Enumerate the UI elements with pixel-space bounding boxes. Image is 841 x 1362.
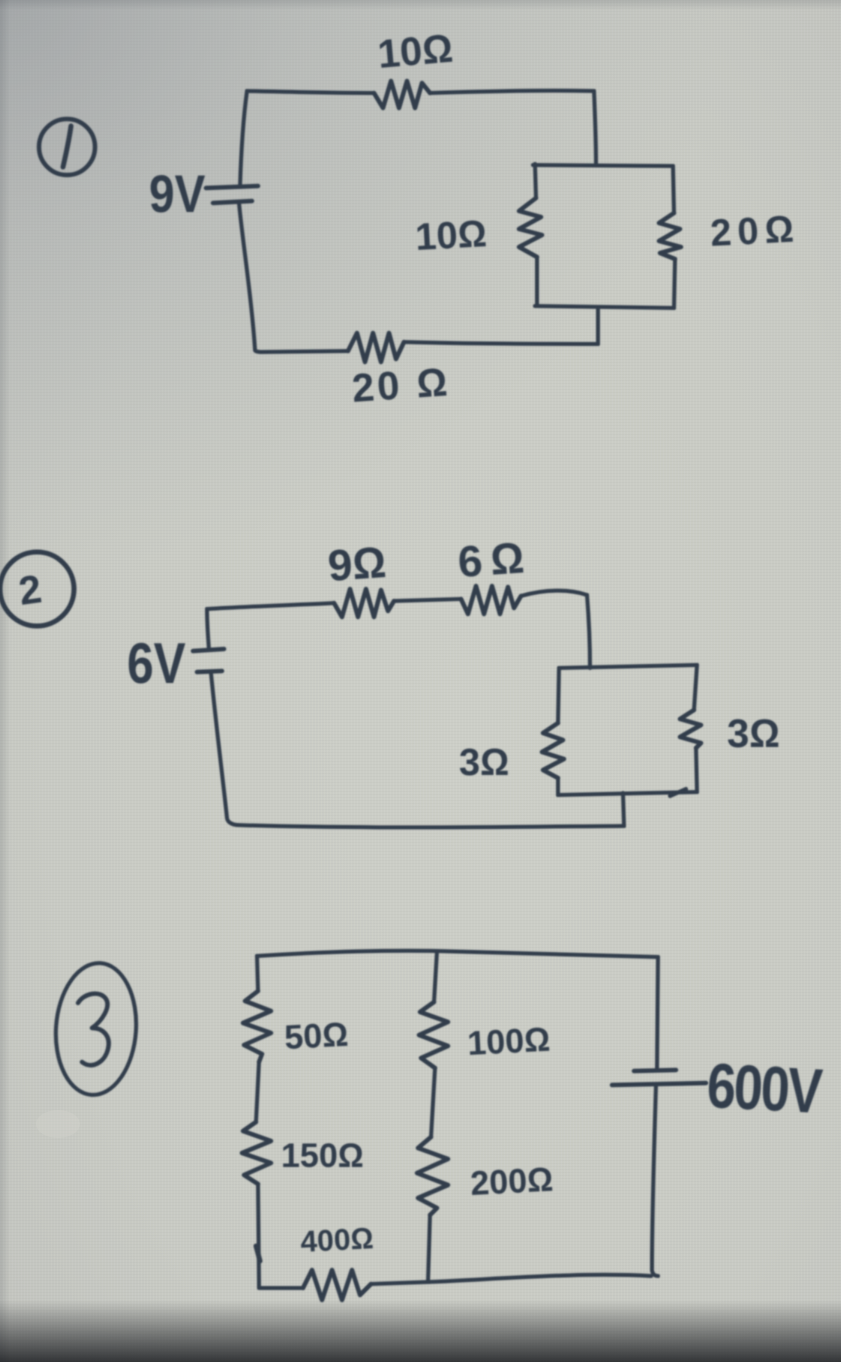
resistor 150ohm — [242, 1122, 271, 1184]
resistor 50ohm — [243, 991, 271, 1062]
digit 1 — [63, 126, 71, 167]
wire up to parallel box — [596, 308, 600, 344]
parallel box top — [533, 165, 673, 166]
wire 6ohm to right corner — [521, 591, 587, 596]
box right lower stub — [674, 259, 675, 308]
label circle 1 — [39, 119, 95, 175]
middle branch upper stub — [434, 951, 437, 1002]
label ellipse 3 — [51, 960, 140, 1097]
wire left vertical upper — [240, 91, 247, 187]
right branch lower — [652, 1085, 658, 1276]
right branch upper — [657, 957, 658, 1069]
top edge shadow — [0, 0, 841, 10]
top-left vignette — [0, 0, 720, 570]
wire left vertical upper — [207, 609, 209, 650]
svg-text:20 Ω: 20 Ω — [351, 360, 452, 411]
box2 top — [559, 665, 697, 668]
box left upper stub — [535, 164, 536, 198]
svg-text:50Ω: 50Ω — [283, 1016, 349, 1057]
left branch upper stub — [257, 956, 258, 991]
left edge shadow — [0, 0, 10, 1362]
resistor 20ohm bottom — [348, 333, 404, 362]
label circle 2 — [0, 552, 74, 626]
box left lower stub — [535, 257, 539, 305]
wire top-left to 9ohm — [207, 603, 334, 609]
resistor 20ohm vertical — [659, 213, 681, 259]
svg-text:9Ω: 9Ω — [326, 538, 388, 591]
resistor 200ohm — [417, 1137, 448, 1215]
box2 bottom-right tick — [670, 789, 686, 796]
resistor 3ohm left — [542, 723, 564, 778]
resistor 10ohm top — [374, 81, 430, 108]
digit 3 — [78, 994, 109, 1066]
wire right down to box — [587, 595, 590, 668]
smudge mark — [36, 1110, 80, 1138]
battery 9V short plate — [213, 201, 252, 203]
wire bottom left segment — [262, 351, 348, 352]
wire right corner down — [594, 91, 596, 163]
wire box stub down — [623, 793, 624, 826]
left branch lower stub — [258, 1184, 268, 1288]
svg-text:10Ω: 10Ω — [376, 27, 455, 77]
svg-text:200Ω: 200Ω — [469, 1161, 554, 1203]
svg-text:6Ω: 6Ω — [456, 533, 534, 587]
battery 6V long plate — [193, 649, 224, 651]
svg-text:6V: 6V — [127, 632, 186, 696]
bottom dark band — [0, 1300, 841, 1362]
box right upper stub — [673, 166, 674, 213]
bottom wire left segment — [268, 1286, 303, 1290]
svg-text:150Ω: 150Ω — [281, 1137, 364, 1175]
resistor 6ohm — [461, 586, 521, 614]
svg-text:100Ω: 100Ω — [466, 1021, 551, 1063]
battery 6V short plate — [197, 671, 222, 672]
battery 600V long plate — [612, 1083, 706, 1085]
middle branch mid stub — [431, 1068, 435, 1137]
ink tick on left branch — [256, 1246, 260, 1261]
box2 right lower stub — [696, 748, 697, 792]
wire bottom right segment — [404, 342, 598, 344]
battery 600V short plate — [634, 1070, 676, 1071]
bottom wire right segment — [371, 1275, 651, 1284]
svg-text:10Ω: 10Ω — [414, 213, 488, 259]
svg-text:600V: 600V — [705, 1050, 824, 1127]
wire resistor to top-right corner — [430, 91, 594, 93]
svg-text:9V: 9V — [149, 164, 205, 224]
resistor 100ohm — [419, 1002, 448, 1068]
box2 left lower stub — [556, 778, 560, 795]
box2 left upper stub — [558, 668, 559, 723]
resistor 400ohm — [303, 1270, 371, 1300]
wire between resistors — [394, 599, 461, 601]
wire top-left to resistor — [247, 91, 374, 93]
left branch mid stub — [256, 1062, 259, 1122]
middle branch lower stub — [428, 1215, 430, 1282]
resistor 9ohm — [334, 589, 394, 617]
svg-text:3Ω: 3Ω — [459, 742, 509, 784]
svg-text:400Ω: 400Ω — [300, 1222, 375, 1259]
svg-text:3Ω: 3Ω — [727, 712, 780, 756]
battery 9V long plate — [206, 186, 258, 188]
wire left vertical lower — [211, 673, 237, 825]
parallel box bottom — [535, 306, 674, 308]
box2 right upper stub — [694, 665, 697, 710]
svg-text:20Ω: 20Ω — [709, 208, 801, 255]
resistor 3ohm right — [680, 710, 701, 748]
wire bottom — [237, 825, 624, 827]
top wire c3 — [257, 951, 658, 957]
box2 bottom — [558, 792, 697, 795]
resistor 10ohm vertical — [519, 198, 542, 257]
wire left vertical lower — [239, 203, 262, 352]
